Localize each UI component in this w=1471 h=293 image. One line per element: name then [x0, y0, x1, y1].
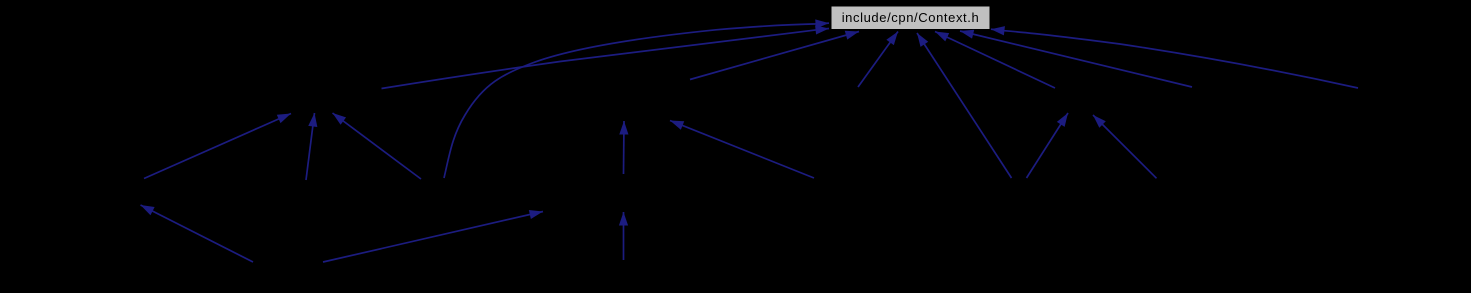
- edge curve C to Context.h: [444, 23, 829, 178]
- edge K to Context.h: [991, 29, 1358, 88]
- edge G to N2: [670, 121, 814, 179]
- edge M3 to M2: [623, 212, 625, 260]
- edge I to N3: [1093, 115, 1157, 178]
- edge C to N1: [333, 113, 422, 179]
- edge N1 to Context.h: [382, 29, 830, 89]
- edge B to N1: [306, 113, 315, 180]
- edge M2 to N2: [623, 121, 626, 174]
- edge J to Context.h: [960, 31, 1192, 87]
- edge N3 to Context.h: [935, 32, 1055, 89]
- node include/cpn/Context.h: [832, 7, 990, 30]
- edge P to Context.h: [690, 32, 859, 80]
- edge D to M2: [323, 212, 543, 263]
- edge D to A: [141, 205, 254, 262]
- edge H to N3: [1027, 113, 1069, 178]
- edge A to N1: [144, 114, 291, 179]
- svg-text:include/cpn/Context.h: include/cpn/Context.h: [842, 10, 980, 25]
- edge H to Context.h: [917, 33, 1012, 178]
- edge Q to Context.h: [858, 32, 898, 88]
